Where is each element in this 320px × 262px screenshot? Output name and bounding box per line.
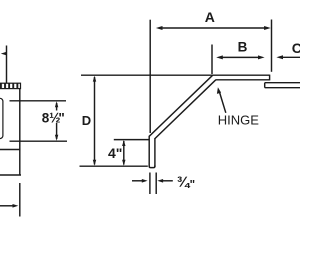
svg-text:8½": 8½"	[42, 110, 65, 125]
svg-text:A: A	[205, 9, 215, 25]
svg-text:B: B	[238, 40, 248, 55]
svg-text:HINGE: HINGE	[218, 113, 259, 128]
svg-text:D: D	[82, 113, 91, 128]
svg-text:C: C	[292, 40, 300, 56]
svg-text:4": 4"	[108, 145, 122, 161]
